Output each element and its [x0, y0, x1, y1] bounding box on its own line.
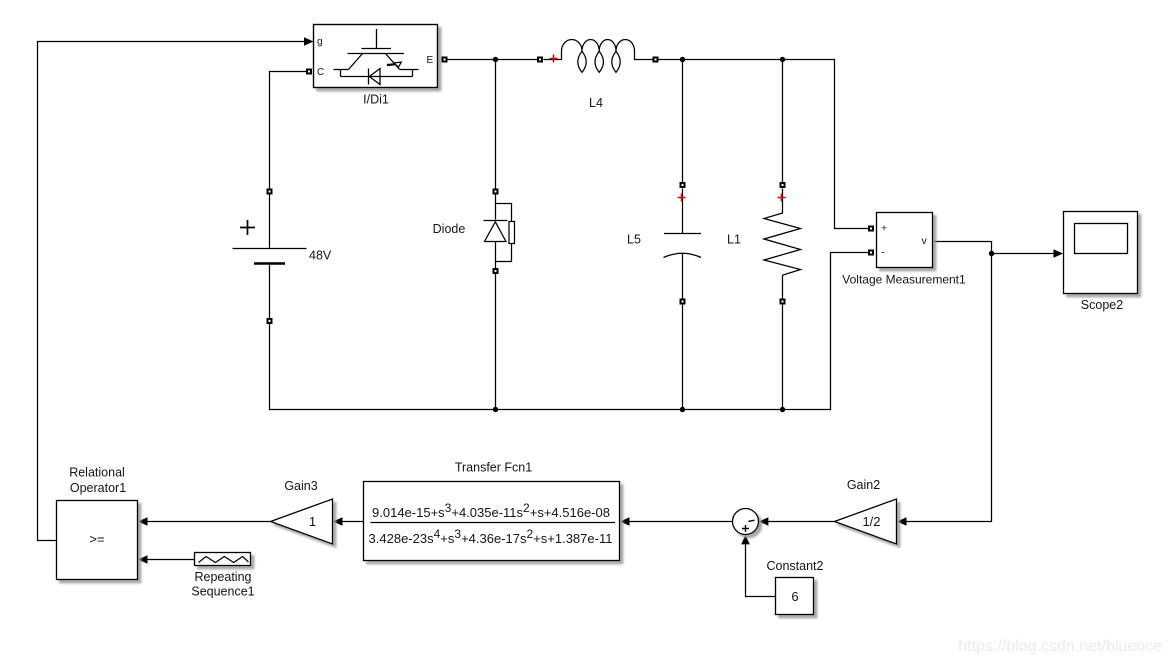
svg-text:Repeating: Repeating [195, 570, 252, 584]
svg-text:-: - [881, 247, 885, 259]
svg-text:Sequence1: Sequence1 [191, 585, 254, 599]
svg-text:1/2: 1/2 [862, 514, 880, 529]
svg-text:C: C [317, 67, 324, 78]
svg-text:>=: >= [89, 532, 104, 547]
svg-text:v: v [922, 235, 928, 247]
svg-text:E: E [427, 55, 434, 66]
svg-text:I/Di1: I/Di1 [363, 92, 389, 106]
svg-text:Transfer Fcn1: Transfer Fcn1 [455, 460, 532, 474]
svg-text:https://blog.csdn.net/blueoce: https://blog.csdn.net/blueoce [958, 638, 1162, 655]
svg-text:Operator1: Operator1 [70, 481, 126, 495]
svg-text:L1: L1 [727, 233, 741, 247]
svg-text:g: g [317, 37, 323, 48]
svg-text:Relational: Relational [69, 465, 125, 479]
svg-text:6: 6 [791, 589, 798, 604]
svg-text:Diode: Diode [433, 222, 466, 236]
svg-text:Scope2: Scope2 [1081, 298, 1123, 312]
svg-text:L4: L4 [589, 96, 603, 110]
svg-text:Gain3: Gain3 [284, 479, 317, 493]
svg-text:+: + [881, 222, 887, 234]
svg-text:Constant2: Constant2 [767, 559, 824, 573]
svg-text:Voltage Measurement1: Voltage Measurement1 [842, 272, 966, 286]
svg-text:Gain2: Gain2 [847, 478, 880, 492]
svg-text:1: 1 [309, 514, 316, 529]
svg-text:48V: 48V [309, 249, 332, 263]
svg-text:L5: L5 [627, 233, 641, 247]
